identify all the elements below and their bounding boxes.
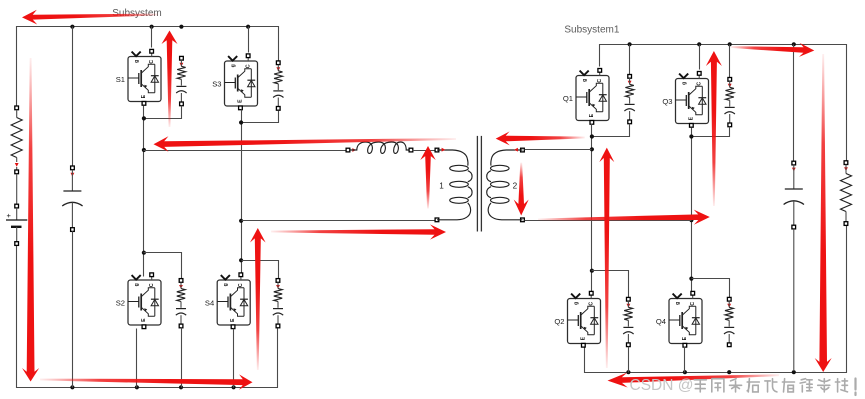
red flow arrow right along right top bus bbox=[731, 43, 814, 57]
wire input cap bottom drop bbox=[72, 231, 74, 387]
svg-text:C: C bbox=[690, 302, 696, 306]
svg-text:S3: S3 bbox=[212, 79, 221, 88]
wire: S4 emitter to bottom bus bbox=[233, 329, 235, 388]
node B: leg2 midpoint (to transformer) bbox=[239, 219, 243, 223]
wire output cap top drop bbox=[793, 45, 795, 162]
red flow arrow top-left toward source bbox=[22, 10, 158, 25]
label S1 bbox=[116, 75, 125, 84]
node: S1 snubber junction bbox=[179, 25, 183, 29]
node: output cap bottom junction bbox=[792, 370, 796, 374]
port marker secondary top bbox=[514, 148, 518, 152]
RC snubber S2 bbox=[176, 279, 186, 328]
wire: S2 snubber branch bbox=[144, 253, 182, 279]
RC snubber Q2 bbox=[623, 297, 633, 346]
wire: inductor to transformer primary top bbox=[413, 150, 436, 152]
RC snubber S1 bbox=[176, 56, 186, 105]
wire: secondary bottom to right leg2 bbox=[525, 220, 692, 222]
node C: right leg1 midpoint (secondary top) bbox=[590, 147, 594, 151]
transistor Q1 (IGBT/Diode block) bbox=[576, 69, 609, 125]
red flow arrow left along primary top wire bbox=[154, 136, 457, 152]
svg-text:Q4: Q4 bbox=[656, 317, 666, 326]
transistor Q2 (IGBT/Diode block) bbox=[568, 291, 601, 347]
port marker primary top bbox=[442, 148, 446, 152]
node: S3 emitter / snubber bbox=[239, 120, 243, 124]
svg-text:g: g bbox=[682, 82, 688, 85]
svg-text:g: g bbox=[582, 79, 588, 82]
transformer T1 primary winding bbox=[435, 148, 472, 222]
transformer T1 secondary winding bbox=[487, 148, 525, 222]
svg-text:E: E bbox=[688, 116, 694, 120]
label S4 bbox=[205, 298, 214, 307]
node D: right leg2 midpoint (secondary bottom) bbox=[689, 218, 693, 222]
svg-text:C: C bbox=[149, 283, 155, 287]
wire: S3-S4 leg bbox=[241, 110, 243, 277]
svg-text:g: g bbox=[134, 283, 140, 286]
node: input cap top junction bbox=[70, 25, 74, 29]
svg-text:C: C bbox=[588, 302, 594, 306]
node: S3 collector junction bbox=[246, 25, 250, 29]
transistor Q4 (IGBT/Diode block) bbox=[669, 291, 702, 347]
RC snubber Q3 bbox=[725, 78, 735, 127]
node: S4 collector / snubber branch bbox=[239, 258, 243, 262]
red flow arrow left toward secondary top bbox=[496, 131, 585, 145]
wire: Q3 snubber return bbox=[693, 127, 730, 137]
label Q2 bbox=[554, 317, 564, 326]
svg-text:g: g bbox=[675, 302, 681, 305]
svg-text:CSDN @: CSDN @ bbox=[630, 377, 694, 394]
svg-text:E: E bbox=[580, 336, 586, 340]
svg-text:g: g bbox=[223, 283, 229, 286]
svg-text:E: E bbox=[141, 94, 147, 98]
svg-text:C: C bbox=[696, 82, 702, 86]
wire resistor to source bbox=[16, 174, 18, 205]
wire: S1 snubber return bbox=[144, 106, 182, 119]
wire: left bottom bus (-DC rail) bbox=[17, 246, 278, 388]
capacitor C_in (input DC bus capacitor) bbox=[62, 166, 82, 231]
svg-text:C: C bbox=[245, 64, 251, 68]
wire output cap bottom drop bbox=[793, 229, 795, 371]
transistor S3 (IGBT/Diode block) bbox=[225, 54, 258, 110]
node: Q1 emitter / snubber bbox=[590, 134, 594, 138]
transistor S1 (IGBT/Diode block) bbox=[128, 49, 161, 105]
svg-text:+: + bbox=[7, 211, 12, 220]
svg-text:C: C bbox=[597, 79, 603, 83]
transistor S2 (IGBT/Diode block) bbox=[128, 273, 161, 329]
wire: S1-S2 leg bbox=[143, 106, 145, 277]
red flow arrow right along left bottom bus bbox=[40, 374, 253, 389]
transformer T1 core bbox=[477, 136, 481, 232]
red flow arrow down right edge to load bbox=[815, 54, 832, 372]
label Subsystem bbox=[112, 8, 161, 19]
node: S4 emitter junction bbox=[232, 385, 236, 389]
svg-text:g: g bbox=[231, 64, 237, 67]
label winding 1 bbox=[439, 182, 444, 191]
svg-text:S4: S4 bbox=[205, 298, 214, 307]
node: S2 snubber bottom junction bbox=[179, 385, 183, 389]
capacitor C_out (output DC bus capacitor) bbox=[784, 161, 804, 229]
label Q3 bbox=[662, 97, 672, 106]
svg-text:2: 2 bbox=[513, 182, 518, 191]
RC snubber S3 bbox=[273, 61, 283, 110]
node: input cap bottom junction bbox=[70, 385, 74, 389]
red flow arrow down at transformer secondary bbox=[514, 163, 529, 216]
node: Q4 collector / snubber branch bbox=[689, 277, 693, 281]
svg-text:Q1: Q1 bbox=[563, 94, 573, 103]
red flow arrow left along right bottom bus bbox=[608, 373, 780, 388]
red flow arrow down left edge from source bbox=[22, 58, 39, 382]
node: S2 emitter junction bbox=[135, 385, 139, 389]
node: Q3 collector junction bbox=[697, 42, 701, 46]
wire: bus to Q1 snubber bbox=[629, 45, 631, 75]
svg-text:Subsystem1: Subsystem1 bbox=[564, 24, 619, 35]
svg-text:Q2: Q2 bbox=[554, 317, 564, 326]
wire: Q2 snubber to bus bbox=[628, 347, 630, 373]
wire: secondary top to right leg1 bbox=[525, 149, 592, 151]
wire: S4 snubber branch bbox=[242, 261, 279, 279]
label S3 bbox=[212, 79, 221, 88]
node: output cap top junction bbox=[792, 42, 796, 46]
red flow arrow up through S4 branch bbox=[250, 228, 266, 370]
wire: bus to S1 collector bbox=[151, 27, 153, 48]
node: S1 collector junction bbox=[150, 25, 154, 29]
red flow arrow up through Q3 branch bbox=[706, 51, 722, 206]
RC snubber S4 bbox=[273, 279, 283, 328]
svg-text:S1: S1 bbox=[116, 75, 125, 84]
node: Q4 snubber bottom junction bbox=[727, 370, 731, 374]
label winding 2 bbox=[513, 182, 518, 191]
svg-text:E: E bbox=[230, 318, 236, 322]
wire: S3 snubber return bbox=[242, 111, 279, 123]
svg-text:g: g bbox=[134, 60, 140, 63]
red flow arrow right along secondary bottom wire bbox=[538, 210, 710, 225]
node: S1 emitter / snubber bbox=[142, 116, 146, 120]
DC source V1 (battery) bbox=[6, 204, 27, 245]
RC snubber Q1 bbox=[624, 75, 634, 124]
wire: bus to S3 collector bbox=[248, 27, 250, 53]
svg-text:Q3: Q3 bbox=[662, 97, 672, 106]
wire input cap top drop bbox=[72, 27, 74, 167]
node: Q2 snubber bottom junction bbox=[626, 370, 630, 374]
red flow arrow up through Q2 leg bbox=[599, 148, 614, 368]
svg-text:C: C bbox=[149, 60, 155, 64]
node A: leg1 midpoint (to inductor) bbox=[142, 148, 146, 152]
wire: Q4 snubber branch bbox=[692, 279, 730, 298]
wire: Q3-Q4 leg bbox=[691, 128, 693, 295]
red flow arrow up at transformer primary bbox=[420, 146, 435, 209]
wire: bus to Q3 collector bbox=[699, 45, 701, 70]
node: Q3 snubber top junction bbox=[728, 42, 732, 46]
svg-text:C: C bbox=[238, 283, 244, 287]
label S2 bbox=[116, 298, 125, 307]
label Q4 bbox=[656, 317, 666, 326]
node: Q4 emitter junction bbox=[683, 370, 687, 374]
wire: S2 snubber to bottom bus bbox=[181, 328, 183, 388]
wire: left top bus (+DC rail) bbox=[17, 27, 279, 107]
RC snubber Q4 bbox=[724, 297, 734, 346]
wire: Q2 snubber branch bbox=[592, 271, 629, 298]
wire: Q4 emitter to bus bbox=[684, 347, 686, 373]
transistor Q3 (IGBT/Diode block) bbox=[676, 72, 709, 128]
svg-text:S2: S2 bbox=[116, 298, 125, 307]
wire: S2 emitter to bottom bus bbox=[136, 329, 138, 388]
svg-text:1: 1 bbox=[439, 182, 444, 191]
label Q1 bbox=[563, 94, 573, 103]
watermark CSDN bbox=[630, 377, 856, 395]
wire: Q1 snubber return bbox=[593, 124, 630, 137]
svg-text:E: E bbox=[237, 99, 243, 103]
wire: node A to inductor bbox=[144, 150, 347, 152]
wire: right top bus bbox=[600, 45, 847, 161]
svg-text:g: g bbox=[574, 302, 580, 305]
svg-text:E: E bbox=[141, 318, 147, 322]
wire: node B to transformer primary bottom bbox=[242, 220, 436, 222]
resistor R_load (output load) bbox=[841, 161, 852, 226]
red flow arrow right along primary bottom wire bbox=[271, 224, 446, 239]
svg-text:E: E bbox=[589, 113, 595, 117]
node: Q3 emitter / snubber bbox=[689, 134, 693, 138]
transistor S4 (IGBT/Diode block) bbox=[217, 273, 250, 329]
svg-text:E: E bbox=[682, 336, 688, 340]
resistor R_in (left source resistor) bbox=[11, 106, 22, 174]
wire: bus to Q3 snubber bbox=[729, 45, 731, 78]
wire: right bottom bus bbox=[585, 226, 847, 373]
node: Q2 collector / snubber branch bbox=[590, 269, 594, 273]
inductor L1 (series leakage inductor) bbox=[346, 142, 413, 153]
node: Q1 snubber top junction bbox=[628, 42, 632, 46]
node: S2 collector / snubber branch bbox=[142, 251, 146, 255]
label Subsystem1 bbox=[564, 24, 619, 35]
red flow arrow up through S1 branch bbox=[162, 31, 178, 128]
wire: Q1-Q2 leg bbox=[591, 124, 593, 295]
